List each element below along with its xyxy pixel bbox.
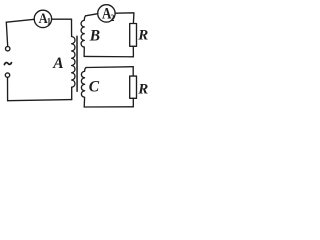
wire B coil to A2 — [86, 14, 98, 16]
wire primary coil bottom — [71, 87, 73, 99]
wire down to resistor (C loop) — [132, 67, 134, 76]
ammeter A2 — [98, 5, 115, 23]
wire bottom of primary loop — [8, 100, 72, 101]
terminal lower — [5, 73, 9, 77]
wire top-left horizontal (source to A1) — [6, 19, 34, 22]
secondary coil B (4 bumps) — [81, 16, 86, 57]
wire A1 to top-right corner — [52, 18, 72, 20]
transformer core — [76, 36, 78, 91]
wire resistor to B-loop bottom — [132, 46, 134, 57]
svg-text:R: R — [137, 82, 148, 98]
wire vertical down to primary coil — [71, 19, 73, 36]
wire A2 to corner and down to resistor — [115, 13, 134, 24]
svg-text:B: B — [89, 28, 100, 45]
svg-text:R: R — [137, 28, 148, 44]
svg-text:A: A — [52, 55, 63, 72]
svg-text:1: 1 — [47, 16, 51, 27]
wire C-loop bottom — [84, 106, 133, 108]
secondary coil C (4 bumps) — [81, 68, 86, 108]
primary coil A (7 bumps) — [72, 37, 75, 88]
ammeter A1 — [34, 10, 51, 27]
wire B-loop bottom — [84, 55, 133, 57]
svg-text:C: C — [89, 79, 100, 96]
wire C-loop top — [86, 66, 133, 69]
resistor R (B loop) — [130, 24, 137, 47]
wire left lower vertical — [7, 77, 9, 100]
AC source tilde — [4, 63, 11, 65]
wire left upper vertical — [6, 22, 7, 46]
terminal upper — [6, 47, 10, 51]
wire resistor to C-loop bottom — [132, 98, 134, 107]
resistor R (C loop) — [130, 76, 137, 98]
svg-text:2: 2 — [110, 12, 115, 23]
